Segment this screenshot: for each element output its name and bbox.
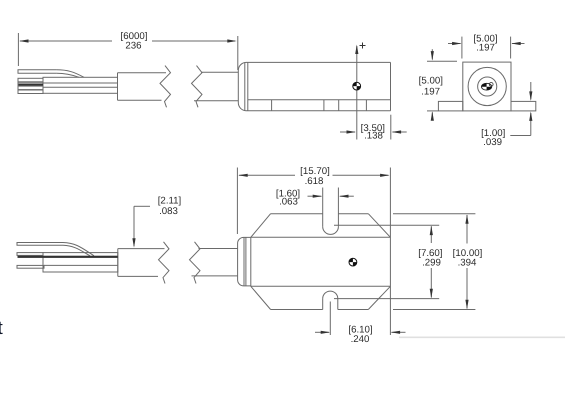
svg-text:[5.00]: [5.00] [419, 76, 443, 87]
svg-text:.063: .063 [279, 196, 298, 207]
svg-text:.299: .299 [422, 257, 441, 268]
svg-text:.039: .039 [483, 137, 502, 148]
svg-text:.138: .138 [364, 131, 383, 142]
svg-text:t: t [0, 318, 4, 339]
svg-text:.240: .240 [351, 334, 370, 345]
svg-text:[2.11]: [2.11] [158, 196, 182, 207]
svg-text:.394: .394 [458, 257, 477, 268]
svg-text:.083: .083 [159, 206, 178, 217]
svg-text:.197: .197 [476, 42, 495, 53]
svg-text:.197: .197 [421, 87, 440, 98]
svg-text:.618: .618 [305, 176, 324, 187]
svg-text:236: 236 [125, 41, 141, 52]
